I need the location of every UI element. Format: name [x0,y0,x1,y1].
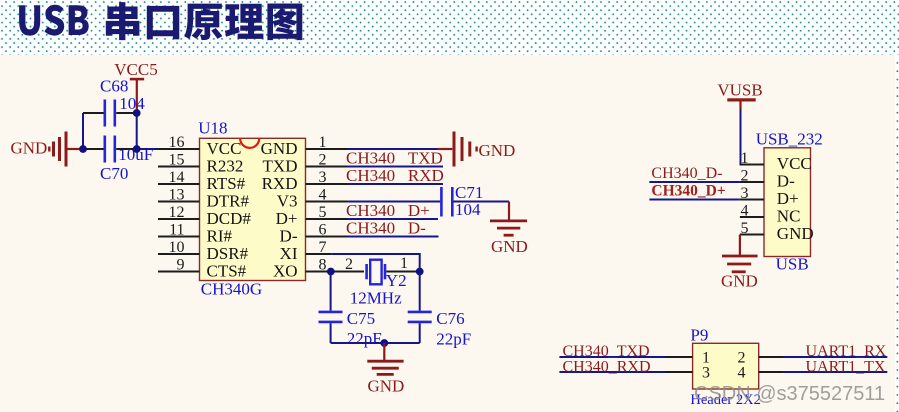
connector USB_232 pin 2 (D-) [740,168,795,191]
ground GND below connector earth symbol [721,235,758,291]
svg-text:CH340_RXD: CH340_RXD [563,358,651,375]
svg-text:4: 4 [741,203,749,220]
svg-text:GND: GND [777,224,814,243]
wire pin8 to crystal left [331,256,364,273]
ground GND left power ground symbol [11,132,80,167]
svg-text:D+: D+ [276,209,298,228]
wire pin6 net CH340_D- [346,219,439,238]
IC U18 left pin 12 (DCD#) [158,204,251,228]
junction dot at GND/C70 [79,145,87,153]
IC U18 left pin 10 (DSR#) [158,239,249,263]
svg-text:16: 16 [169,134,185,151]
IC U18 right pin 6 (D-) [280,222,347,246]
junction dot pin7/crystal right [416,268,424,276]
svg-text:1: 1 [741,150,749,167]
capacitor C70 value 10uF [83,136,153,184]
svg-text:GND: GND [368,377,405,396]
IC U18 left pin 14 (RTS#) [158,169,246,193]
capacitor C68 value 104 [83,76,145,126]
svg-text:14: 14 [169,169,185,186]
wire net CH340_D+ to pin3 [649,183,740,200]
wire net UART1_RX from P9 pin2 [759,343,888,360]
svg-text:GND: GND [11,139,48,158]
svg-text:GND: GND [479,141,516,160]
junction dot at C68/VCC [133,109,141,117]
power port VCC5 [114,60,157,113]
svg-text:RI#: RI# [207,227,233,246]
IC U18 left pin 9 (CTS#) [158,257,247,281]
junction dot at C70/pin16 [133,145,141,153]
svg-text:10: 10 [169,239,185,256]
svg-text:4: 4 [738,365,746,382]
IC U18 right pin 3 (RXD) [262,169,347,193]
IC U18 left pin 15 (R232) [158,152,243,176]
svg-text:CH340_D+: CH340_D+ [651,183,725,200]
svg-text:DSR#: DSR# [207,244,249,263]
header P9 body [690,326,760,409]
IC U18 notch arc [240,138,259,148]
svg-text:R232: R232 [207,157,244,176]
svg-text:2: 2 [319,152,327,169]
wire pin3 net CH340_RXD [346,166,444,185]
svg-text:3: 3 [319,169,327,186]
wire net CH340_D- to pin2 [649,165,740,182]
svg-text:CH340G: CH340G [201,280,262,299]
IC U18 right pin 5 (D+) [276,204,347,228]
svg-text:3: 3 [741,185,749,202]
capacitor C71 value 104 [441,183,483,219]
IC U18 left pin 11 (RI#) [158,222,233,246]
ground GND below C71 earth symbol [490,202,528,257]
IC U18 right pin 4 (V3) [277,187,347,211]
junction dot bottom rail [380,339,388,347]
svg-text:GND: GND [261,139,298,158]
crystal Y2 12MHz [350,255,420,308]
svg-text:CSDN @s375527511: CSDN @s375527511 [694,383,885,405]
header P9 pin numbers [702,350,746,382]
svg-text:VCC: VCC [207,139,242,158]
svg-text:C70: C70 [100,164,128,183]
svg-text:RTS#: RTS# [207,174,246,193]
title text USB串口原理图 [19,2,302,40]
svg-text:2: 2 [345,256,353,273]
capacitor C76 value 22pF [408,272,472,349]
wire C71 to ground corner [454,201,510,203]
svg-text:3: 3 [702,365,710,382]
svg-text:CH340 D-: CH340 D- [346,219,426,238]
ground GND at pin1 power ground symbol [438,132,516,167]
wire pin2 net CH340_TXD [346,149,443,168]
svg-text:5: 5 [319,204,327,221]
wire pin5 net CH340_D+ [346,201,438,220]
connector USB_232 pin 3 (D+) [740,185,799,208]
wire vertical C68-C70 left [82,113,84,149]
svg-text:D-: D- [777,172,795,191]
connector USB_232 body [756,130,823,274]
svg-text:NC: NC [777,207,801,226]
wire bottom rail C75-C76 [331,342,420,344]
svg-text:CH340_D-: CH340_D- [651,165,722,182]
IC U18 right pin 2 (TXD) [263,152,347,176]
wire net CH340_TXD to P9 pin1 [559,343,692,360]
svg-text:CH340 RXD: CH340 RXD [346,166,444,185]
IC U18 left pin 13 (DTR#) [158,187,250,211]
svg-text:7: 7 [319,239,327,256]
wire pin4 to C71 [347,201,440,203]
wire pin1 to ground [347,148,438,150]
svg-text:11: 11 [169,222,184,239]
svg-text:13: 13 [169,187,185,204]
svg-text:1: 1 [400,255,408,272]
svg-text:22pF: 22pF [347,329,382,348]
svg-text:RXD: RXD [262,174,298,193]
wire net UART1_TX from P9 pin4 [759,358,888,375]
svg-text:GND: GND [491,237,528,256]
svg-text:D+: D+ [777,189,799,208]
svg-text:CH340 TXD: CH340 TXD [346,149,443,168]
svg-text:12MHz: 12MHz [350,289,402,308]
watermark CSDN [694,383,885,405]
connector USB_232 pin 1 (VCC) [740,150,812,173]
ground GND below crystal earth symbol [367,343,404,396]
svg-text:2: 2 [741,168,749,185]
svg-text:USB_232: USB_232 [756,130,823,149]
svg-text:C68: C68 [100,76,128,95]
svg-text:4: 4 [319,187,327,204]
svg-text:8: 8 [319,257,327,274]
IC U18 left pin 16 (VCC) [158,134,241,158]
svg-text:UART1_TX: UART1_TX [806,358,886,375]
junction dot pin8/crystal [327,268,335,276]
svg-text:5: 5 [741,220,749,237]
connector USB_232 pin 5 (GND) [740,220,814,243]
svg-text:XI: XI [280,244,298,263]
IC U18 right pin 8 (XO) [273,257,347,281]
capacitor C75 value 22pF [319,272,382,348]
wire net CH340_RXD to P9 pin3 [559,358,692,375]
svg-text:CH340 D+: CH340 D+ [346,201,430,220]
wire VUSB to connector pin1 [741,109,763,165]
svg-text:C76: C76 [436,309,464,328]
svg-text:DTR#: DTR# [207,192,250,211]
svg-text:P9: P9 [690,326,708,345]
svg-text:VUSB: VUSB [717,81,762,100]
svg-text:DCD#: DCD# [207,209,252,228]
wire vertical VCC junction down to pin16 row [136,113,138,149]
svg-text:22pF: 22pF [436,330,471,349]
IC U18 right pin 7 (XI) [280,239,332,263]
svg-text:12: 12 [169,204,185,221]
svg-text:6: 6 [319,222,327,239]
svg-text:GND: GND [721,272,758,291]
svg-text:104: 104 [119,94,145,113]
IC U18 right pin 1 (GND) [261,134,347,158]
power port VUSB [717,81,762,110]
svg-text:9: 9 [177,257,185,274]
op IC U18 CH340G body [198,119,305,299]
svg-text:104: 104 [455,200,481,219]
svg-text:VCC: VCC [777,154,812,173]
svg-text:1: 1 [319,134,327,151]
svg-text:XO: XO [273,262,298,281]
svg-text:U18: U18 [198,119,227,138]
svg-text:C75: C75 [347,309,375,328]
svg-text:V3: V3 [277,192,298,211]
svg-text:15: 15 [169,152,185,169]
svg-text:Y2: Y2 [386,271,407,290]
connector USB_232 pin 4 (NC) [740,203,801,226]
wire pin7 to crystal right [332,254,420,269]
svg-text:TXD: TXD [263,157,298,176]
svg-text:D-: D- [280,227,298,246]
svg-text:USB: USB [776,255,809,274]
wire pin16 row to chip [137,148,159,150]
svg-text:CTS#: CTS# [207,262,247,281]
